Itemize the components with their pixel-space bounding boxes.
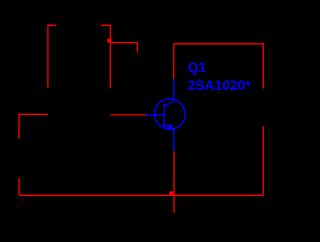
wire: branch from node to right stub: [110, 43, 137, 53]
transistor Q1 body circle: [155, 99, 185, 129]
wire: right vertical lower segment: [262, 126, 264, 195]
transistor Q1 (PNP 2SA1020): [146, 79, 185, 151]
wire: emitter net with bottom stub: [173, 151, 175, 212]
transistor Q1 collector pin lead: [173, 79, 175, 101]
svg-text:Q1: Q1: [188, 60, 207, 75]
wire: left rect top and upper-left vertical: [19, 114, 48, 138]
wire: base net: [110, 114, 146, 116]
transistor Q1 base pin lead: [146, 114, 164, 116]
wire: top rail from collector to right side: [174, 44, 263, 88]
wire: second stub hook (net 2): [101, 25, 110, 88]
transistor Q1 collector diagonal: [164, 101, 174, 107]
node A junction dot: [107, 39, 111, 43]
wire: lower-left vertical segment: [18, 178, 20, 195]
wire: left stub hook (net 1): [48, 25, 56, 87]
transistor Q1 emitter arrow (PNP, points to base): [166, 124, 172, 130]
svg-text:2SA1020*: 2SA1020*: [188, 78, 252, 93]
wire: bottom rail: [19, 194, 263, 196]
transistor Q1 emitter pin lead: [173, 129, 175, 151]
node B junction dot (bottom rail): [170, 191, 174, 195]
transistor Q1 emitter diagonal: [164, 125, 174, 129]
transistor Q1 base bar: [163, 104, 165, 128]
